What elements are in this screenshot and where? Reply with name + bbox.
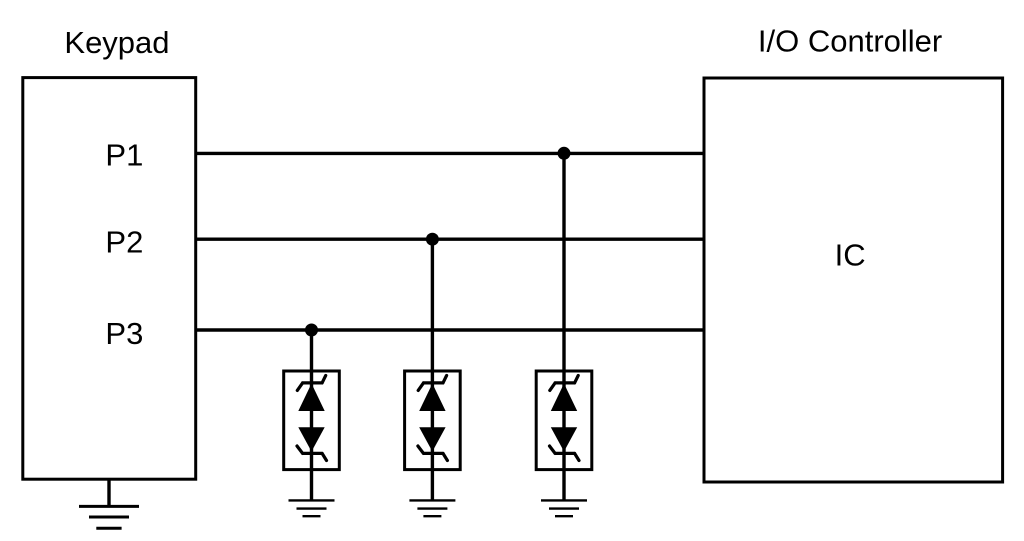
junction node on P2	[426, 233, 439, 246]
junction node on P3	[305, 324, 318, 337]
pin label P1	[105, 138, 143, 173]
label IC	[835, 238, 866, 273]
TVS diode D1 (bidirectional zener pair on P3)	[284, 371, 340, 470]
junction node on P1	[558, 147, 571, 160]
svg-text:P3: P3	[105, 316, 143, 351]
wire P2 vertical drop	[431, 239, 434, 500]
svg-text:P1: P1	[105, 138, 143, 173]
wire P1 horizontal	[196, 152, 704, 155]
wire P3 horizontal	[196, 328, 704, 331]
ground (TVS D2)	[409, 500, 455, 516]
label Keypad	[64, 25, 169, 60]
svg-text:P2: P2	[105, 225, 143, 260]
svg-text:Keypad: Keypad	[64, 25, 169, 60]
Keypad box	[23, 78, 196, 480]
TVS diode D2 (bidirectional zener pair on P2)	[405, 371, 461, 470]
svg-text:IC: IC	[835, 238, 866, 273]
wire P1 vertical drop	[562, 153, 565, 500]
ground (TVS D3)	[541, 500, 587, 516]
pin label P2	[105, 225, 143, 260]
wire P2 horizontal	[196, 237, 704, 240]
wire P3 vertical drop	[310, 330, 313, 500]
pin label P3	[105, 316, 143, 351]
ground (Keypad)	[79, 479, 139, 528]
svg-text:I/O Controller: I/O Controller	[758, 24, 942, 59]
label I/O Controller	[758, 24, 942, 59]
ground (TVS D1)	[289, 500, 335, 516]
TVS diode D3 (bidirectional zener pair on P1)	[536, 371, 592, 470]
I/O Controller box U1	[704, 78, 1003, 482]
